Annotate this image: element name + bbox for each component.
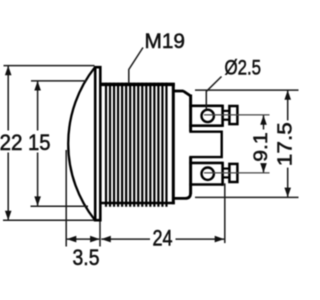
rear housing right edge upper segment — [189, 95, 192, 132]
dimension 15 line — [37, 81, 39, 130]
rear housing right edge lower segment — [189, 157, 192, 194]
dimension 17.5 line — [287, 91, 289, 121]
label M19 leader — [129, 48, 143, 84]
dimension 3.5 extension right — [99, 222, 101, 247]
svg-text:24: 24 — [153, 225, 173, 250]
dimension 3.5 arrows — [67, 236, 77, 243]
thread lines M19 — [106, 83, 166, 207]
dimension 3.5 line — [67, 238, 99, 240]
button dome face arc — [68, 67, 95, 220]
rear housing bottom corner and bottom edge — [173, 193, 190, 198]
svg-text:M19: M19 — [145, 30, 186, 53]
thread barrel right edge — [172, 83, 175, 204]
terminal T2 block right edge — [221, 162, 224, 186]
dimension 22 arrows — [5, 66, 12, 76]
dimension 17.5 extension bottom — [195, 196, 299, 198]
terminal T1 block bottom edge — [189, 124, 222, 127]
svg-text:17.5: 17.5 — [275, 122, 297, 166]
svg-text:Ø2.5: Ø2.5 — [225, 57, 262, 80]
terminal T1 centerline — [204, 114, 270, 116]
dimension 9.1 line — [263, 115, 265, 129]
terminal T2 screw neck — [223, 168, 230, 170]
terminal T1 block top edge — [189, 105, 222, 108]
dimension 15 arrows — [34, 81, 41, 91]
button rim flange — [95, 67, 100, 220]
dimension 9.1 arrows — [260, 115, 267, 125]
dimension 15 extension bottom — [31, 205, 89, 207]
terminal T2 block bottom edge — [189, 183, 222, 186]
thread barrel top edge — [100, 83, 175, 87]
dimension 3.5 extension left — [65, 150, 67, 247]
dimension 15 extension top — [31, 80, 87, 82]
svg-text:9.1: 9.1 — [250, 132, 272, 162]
insulator block between terminals — [189, 132, 221, 157]
dimension 22 extension top — [4, 65, 95, 67]
dimension 17.5 arrows — [284, 90, 291, 100]
terminal T2 screw hole — [202, 168, 214, 180]
terminal T1 screw head — [229, 106, 237, 124]
terminal T2 block top edge — [189, 162, 222, 165]
rear housing top edge — [173, 90, 183, 93]
dimension 22 line — [7, 66, 9, 131]
terminal T2 centerline — [204, 172, 270, 174]
terminal T2 screw head — [229, 164, 237, 182]
dimension 17.5 extension top — [195, 89, 299, 91]
thread barrel bottom root line — [100, 202, 175, 205]
rear housing top chamfer — [183, 91, 190, 96]
terminal T1 screw neck — [223, 110, 230, 112]
label D2.5 leader — [206, 77, 221, 109]
svg-text:3.5: 3.5 — [73, 245, 100, 270]
svg-text:15: 15 — [28, 130, 51, 155]
dimension 24 line — [101, 238, 150, 240]
terminal T1 screw hole — [202, 110, 214, 122]
dimension 24 arrows — [101, 236, 111, 243]
dimension 22 extension bottom — [3, 219, 94, 221]
terminal T1 block right edge — [221, 105, 224, 127]
svg-text:22: 22 — [0, 130, 23, 155]
dimension 24 extension right — [224, 183, 226, 243]
